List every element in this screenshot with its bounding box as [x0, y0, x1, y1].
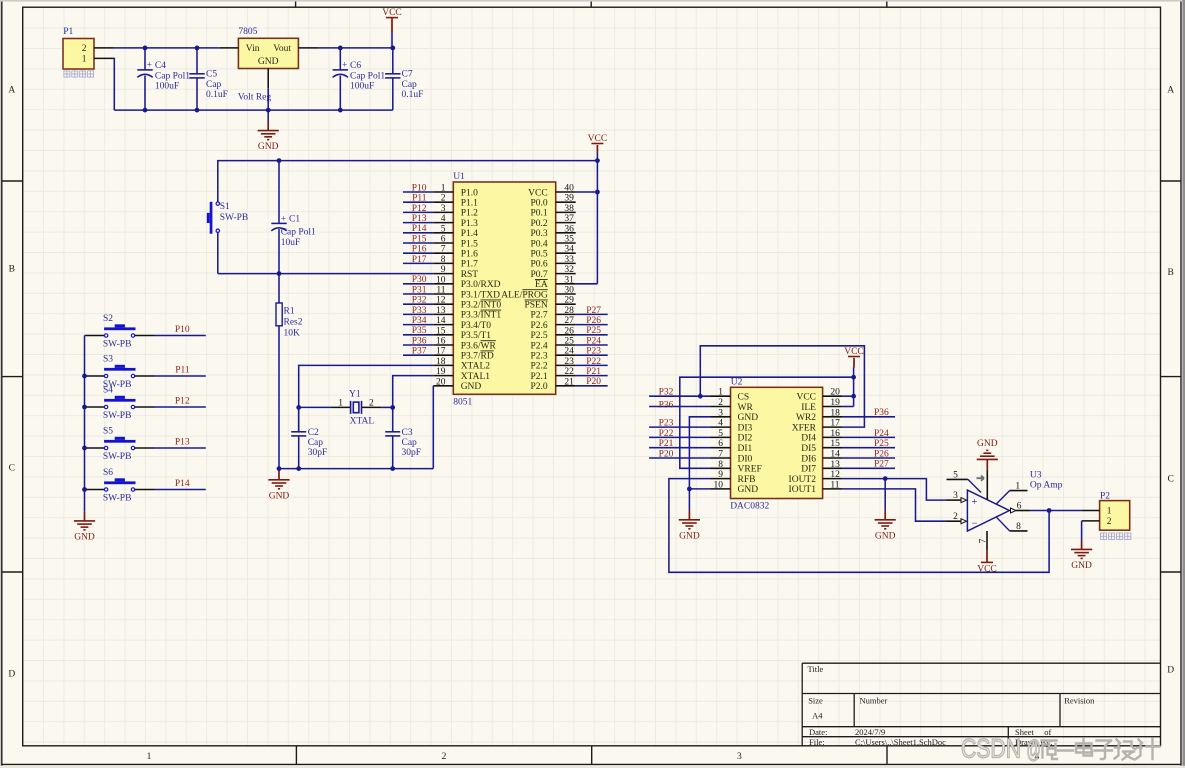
svg-text:S4: S4 [103, 386, 113, 396]
svg-text:File:: File: [809, 737, 825, 747]
wire net P13 [403, 222, 433, 224]
junction [687, 487, 692, 492]
junction [851, 394, 856, 399]
svg-text:P26: P26 [874, 449, 889, 459]
wire net P36 (WR) [649, 406, 710, 408]
svg-text:P0.6: P0.6 [531, 260, 548, 270]
pin U1.33 P0.6 [556, 262, 576, 264]
svg-text:P0.0: P0.0 [531, 199, 548, 209]
pin U1.11 P3.1/TXD [433, 293, 453, 295]
svg-text:15: 15 [436, 326, 446, 336]
svg-text:24: 24 [564, 347, 574, 357]
pin U1.12 P3.2/INT0 [433, 303, 453, 305]
svg-text:12: 12 [436, 296, 446, 306]
pin U1.25 P2.4 [556, 344, 576, 346]
svg-text:P13: P13 [412, 214, 427, 224]
svg-text:7: 7 [979, 538, 989, 543]
svg-text:P34: P34 [412, 316, 427, 326]
svg-text:DI2: DI2 [738, 434, 753, 444]
svg-text:IOUT1: IOUT1 [789, 485, 817, 495]
resistor R1 [276, 274, 282, 469]
svg-text:P20: P20 [586, 377, 601, 387]
svg-text:R1: R1 [284, 306, 295, 316]
svg-text:GND: GND [875, 531, 896, 541]
pin U3.1 [997, 491, 1010, 504]
svg-text:25: 25 [564, 337, 574, 347]
svg-text:GND: GND [258, 142, 279, 152]
svg-text:5: 5 [441, 224, 446, 234]
svg-text:13: 13 [436, 306, 446, 316]
junction [82, 487, 87, 492]
wire net P14 [403, 232, 433, 234]
ground stem switches [84, 490, 86, 512]
pin U2.2 WR [711, 406, 731, 408]
wire IOUT1 to op-amp -in [843, 489, 947, 521]
svg-text:10uF: 10uF [281, 238, 301, 248]
svg-text:P3.5/T1: P3.5/T1 [461, 331, 492, 341]
svg-text:26: 26 [564, 326, 574, 336]
svg-text:0.1uF: 0.1uF [402, 90, 424, 100]
svg-text:P12: P12 [412, 204, 427, 214]
ground (xtal rail) [268, 480, 289, 489]
svg-text:P23: P23 [586, 347, 601, 357]
svg-text:P0.1: P0.1 [531, 209, 548, 219]
wire net P13 [155, 447, 206, 449]
svg-text:21: 21 [564, 377, 574, 387]
svg-text:12: 12 [830, 470, 840, 480]
pin U1.24 P2.3 [556, 354, 576, 356]
wire net P25 [576, 334, 608, 336]
svg-text:VCC: VCC [977, 565, 997, 575]
svg-text:40: 40 [564, 184, 574, 194]
svg-text:P24: P24 [586, 336, 601, 346]
junction [595, 190, 600, 195]
wire net P32 [403, 303, 433, 305]
svg-text:1: 1 [338, 398, 343, 408]
svg-text:5: 5 [953, 470, 958, 480]
svg-text:RFB: RFB [738, 475, 756, 485]
svg-text:P1.6: P1.6 [461, 250, 478, 260]
svg-text:P36: P36 [659, 401, 674, 411]
wire ILE pin19 [843, 406, 854, 408]
svg-text:D: D [8, 670, 15, 680]
pin U2.18 WR2 [823, 416, 843, 418]
junction [266, 108, 271, 113]
pin 7805 GND [267, 69, 269, 89]
svg-text:P31: P31 [412, 285, 427, 295]
svg-text:9: 9 [441, 265, 446, 275]
svg-text:U1: U1 [453, 172, 465, 182]
wire net P26 [843, 457, 895, 459]
pin U2.5 DI2 [711, 436, 731, 438]
svg-text:IOUT2: IOUT2 [789, 475, 817, 485]
svg-text:16: 16 [436, 337, 446, 347]
svg-text:Cap: Cap [402, 438, 418, 448]
pin U1.36 P0.3 [556, 232, 576, 234]
svg-text:14: 14 [436, 316, 446, 326]
svg-text:P2.6: P2.6 [531, 321, 548, 331]
power VCC stem top-left [391, 18, 393, 32]
switch S4 SW-PB [85, 396, 155, 409]
svg-text:2: 2 [82, 44, 87, 54]
svg-text:2024/7/9: 2024/7/9 [855, 727, 885, 737]
switch S2 SW-PB [85, 324, 155, 337]
svg-text:U2: U2 [731, 377, 743, 387]
wire Y1 to XTAL1 [382, 406, 393, 408]
pin U1.32 P0.7 [556, 273, 576, 275]
svg-text:30: 30 [564, 286, 574, 296]
svg-text:CS: CS [738, 393, 750, 403]
svg-text:32: 32 [564, 265, 574, 275]
pin U2.19 ILE [823, 406, 843, 408]
svg-text:16: 16 [830, 429, 840, 439]
svg-text:P3.7/RD: P3.7/RD [461, 352, 494, 362]
junction [296, 405, 301, 410]
svg-text:P1.1: P1.1 [461, 199, 478, 209]
svg-text:Cap: Cap [206, 80, 222, 90]
no-ERC marker arrow [977, 476, 985, 481]
svg-text:10: 10 [714, 480, 724, 490]
svg-text:5: 5 [718, 429, 723, 439]
wire net P30 [403, 283, 433, 285]
pin U1.5 P1.4 [433, 232, 453, 234]
junction [143, 108, 148, 113]
wire VREF to VCC [680, 377, 854, 468]
svg-text:P2.5: P2.5 [531, 331, 548, 341]
switch S5 SW-PB [85, 437, 155, 450]
wire net P16 [403, 252, 433, 254]
svg-text:P3.0/RXD: P3.0/RXD [461, 280, 501, 290]
junction [277, 466, 282, 471]
svg-text:27: 27 [564, 316, 574, 326]
svg-text:37: 37 [564, 214, 574, 224]
pin U2.17 XFER [823, 426, 843, 428]
junction [277, 271, 282, 276]
svg-text:GND: GND [738, 413, 759, 423]
wire RFB feedback [669, 479, 1049, 573]
svg-text:P2.7: P2.7 [531, 311, 548, 321]
wire GND pin3 down [689, 417, 710, 489]
svg-text:P3.3/INT1: P3.3/INT1 [461, 311, 502, 321]
svg-text:GND: GND [74, 533, 95, 543]
pin U1.23 P2.2 [556, 364, 576, 366]
svg-text:Vout: Vout [273, 44, 291, 54]
svg-text:XTAL: XTAL [350, 416, 375, 426]
svg-text:P1.4: P1.4 [461, 229, 478, 239]
svg-text:C2: C2 [308, 428, 319, 438]
pin U1.27 P2.6 [556, 324, 576, 326]
svg-text:Date:: Date: [809, 727, 827, 737]
svg-text:CSDN: CSDN [961, 734, 1021, 764]
pin U1.15 P3.5/T1 [433, 334, 453, 336]
wire net P31 [403, 293, 433, 295]
wire GND pin10 [689, 488, 710, 490]
svg-text:P23: P23 [659, 419, 674, 429]
svg-text:P25: P25 [874, 439, 889, 449]
svg-text:Number: Number [860, 695, 888, 705]
junction [143, 46, 148, 51]
svg-text:DI7: DI7 [801, 465, 816, 475]
switch S6 SW-PB [85, 478, 155, 491]
wire xtal ground rail [279, 468, 433, 470]
svg-text:29: 29 [564, 296, 574, 306]
pin U3.5 [947, 478, 968, 480]
svg-text:C: C [1168, 475, 1174, 485]
wire net P22 [576, 364, 608, 366]
wire net P10 [155, 335, 206, 337]
pin P1.1 [94, 57, 114, 59]
svg-text:GND: GND [258, 57, 279, 67]
pin U1.16 P3.6/WR [433, 344, 453, 346]
svg-text:1: 1 [441, 184, 446, 194]
svg-text:Vin: Vin [246, 44, 260, 54]
svg-text:Cap: Cap [402, 80, 418, 90]
svg-text:−: − [972, 519, 978, 530]
pin U2.10 GND [711, 488, 731, 490]
svg-text:P0.3: P0.3 [531, 229, 548, 239]
svg-text:Op Amp: Op Amp [1030, 481, 1063, 491]
svg-text:6: 6 [441, 235, 446, 245]
svg-text:39: 39 [564, 194, 574, 204]
svg-text:GND: GND [461, 382, 482, 392]
svg-text:P32: P32 [412, 296, 427, 306]
svg-text:38: 38 [564, 204, 574, 214]
pin U1.1 P1.0 [433, 191, 453, 193]
junction [390, 405, 395, 410]
svg-text:22: 22 [564, 367, 574, 377]
junction [390, 466, 395, 471]
pin P2.1 [1082, 510, 1100, 512]
svg-text:6: 6 [718, 439, 723, 449]
svg-text:P17: P17 [412, 255, 427, 265]
svg-text:P10: P10 [175, 325, 190, 335]
svg-text:DI0: DI0 [738, 454, 753, 464]
pin U1.18 XTAL2 [433, 364, 453, 366]
wire net P37 [403, 354, 433, 356]
pin U2.1 CS [711, 395, 731, 397]
svg-text:GND: GND [977, 439, 998, 449]
svg-text:8: 8 [718, 460, 723, 470]
svg-text:19: 19 [436, 367, 446, 377]
wire VCC pin20 [843, 395, 854, 397]
svg-text:WR2: WR2 [796, 413, 816, 423]
svg-text:DAC0832: DAC0832 [730, 501, 769, 511]
svg-text:P15: P15 [412, 234, 427, 244]
comment 电源接口 [64, 71, 70, 77]
pin U1.35 P0.4 [556, 242, 576, 244]
svg-text:DI5: DI5 [801, 444, 816, 454]
ground (7805) [258, 131, 279, 140]
wire net P32 (CS) [649, 395, 710, 397]
wire net P27 [576, 313, 608, 315]
svg-text:SW-PB: SW-PB [103, 411, 132, 421]
junction [82, 374, 87, 379]
svg-text:7: 7 [441, 245, 446, 255]
svg-text:18: 18 [830, 408, 840, 418]
svg-text:U3: U3 [1030, 470, 1042, 480]
svg-text:XTAL1: XTAL1 [461, 372, 491, 382]
DAC U2 DAC0832 [731, 387, 823, 498]
wire 7805 GND to rail [267, 88, 269, 110]
wire GND (pin20) down to rail [432, 386, 434, 469]
junction [338, 46, 343, 51]
svg-text:VREF: VREF [738, 465, 762, 475]
svg-text:P22: P22 [586, 357, 601, 367]
svg-text:A: A [8, 86, 15, 96]
svg-text:P24: P24 [874, 429, 889, 439]
svg-text:P1.5: P1.5 [461, 239, 478, 249]
wire output to P2 [1030, 510, 1082, 512]
svg-text:P2.3: P2.3 [531, 352, 548, 362]
pin U2.11 IOUT1 [823, 488, 843, 490]
svg-text:10: 10 [436, 275, 446, 285]
svg-text:GND: GND [679, 531, 700, 541]
ground (switches) [74, 521, 95, 530]
svg-text:DI3: DI3 [738, 423, 753, 433]
wire net P24 [843, 436, 895, 438]
svg-text:6: 6 [1017, 502, 1022, 512]
svg-text:VCC: VCC [528, 188, 548, 198]
svg-text:28: 28 [564, 306, 574, 316]
svg-text:C5: C5 [206, 70, 217, 80]
svg-text:1: 1 [82, 54, 87, 64]
svg-text:GND: GND [269, 491, 290, 501]
wire net P34 [403, 324, 433, 326]
svg-text:33: 33 [564, 255, 574, 265]
svg-text:P27: P27 [586, 306, 601, 316]
pin U1.37 P0.2 [556, 222, 576, 224]
title block [802, 663, 1160, 746]
svg-text:1: 1 [718, 388, 723, 398]
svg-text:P3.6/WR: P3.6/WR [461, 341, 497, 351]
pin U1.26 P2.5 [556, 334, 576, 336]
pin U1.4 P1.3 [433, 222, 453, 224]
capacitor C3 [385, 407, 400, 468]
svg-text:P2.2: P2.2 [531, 362, 548, 372]
pin U3.8 [997, 517, 1010, 531]
pin U1.13 P3.3/INT1 [433, 313, 453, 315]
svg-text:18: 18 [436, 357, 446, 367]
svg-text:20: 20 [830, 388, 840, 398]
svg-text:C4: C4 [155, 61, 166, 71]
svg-text:A4: A4 [812, 710, 823, 720]
svg-text:Cap Pol1: Cap Pol1 [155, 71, 190, 81]
wire Y1 row left [299, 406, 331, 408]
junction [883, 476, 888, 481]
svg-text:13: 13 [830, 460, 840, 470]
svg-text:VCC: VCC [382, 8, 402, 18]
pin U1.22 P2.1 [556, 375, 576, 377]
wire top rail (VIN net) [114, 47, 220, 49]
svg-text:C1: C1 [289, 214, 300, 224]
pin U3.3 [947, 499, 961, 501]
svg-text:C3: C3 [402, 428, 413, 438]
svg-text:P1.0: P1.0 [461, 188, 478, 198]
svg-text:P33: P33 [412, 306, 427, 316]
op-amp U3 triangle [967, 490, 1009, 531]
junction [82, 446, 87, 451]
svg-text:+: + [972, 497, 978, 508]
svg-text:2: 2 [953, 512, 958, 522]
svg-text:P21: P21 [586, 367, 601, 377]
svg-text:30pF: 30pF [402, 448, 422, 458]
svg-text:3: 3 [953, 491, 958, 501]
pin U2.20 VCC [823, 395, 843, 397]
microcontroller U1 8051 [453, 182, 555, 394]
ground stem (IOUT2) [884, 479, 886, 511]
wire net P23 [649, 426, 710, 428]
pin U3.2 [947, 520, 961, 522]
wire net P12 [155, 406, 206, 408]
svg-text:P2.0: P2.0 [531, 382, 548, 392]
svg-text:XTAL2: XTAL2 [461, 362, 491, 372]
svg-text:Cap Pol1: Cap Pol1 [281, 228, 316, 238]
wire net P20 [576, 385, 608, 387]
wire IOUT2 to op-amp +in [843, 479, 947, 501]
crystal Y1 [351, 401, 362, 414]
svg-text:Volt Reg: Volt Reg [238, 92, 272, 102]
svg-text:GND: GND [1071, 561, 1092, 571]
junction [595, 158, 600, 163]
svg-text:RST: RST [461, 270, 479, 280]
svg-text:4: 4 [441, 214, 446, 224]
svg-text:36: 36 [564, 224, 574, 234]
svg-text:P30: P30 [412, 275, 427, 285]
svg-text:ILE: ILE [801, 403, 816, 413]
ground (P2) [1071, 549, 1092, 558]
pin 7805 Vin [220, 47, 239, 49]
wire P2 pin2 to ground [1081, 521, 1083, 541]
svg-text:P22: P22 [659, 429, 674, 439]
wire VCC to pin40 and EA [596, 161, 598, 284]
svg-text:100uF: 100uF [350, 81, 374, 91]
wire net P14 [155, 489, 206, 491]
svg-text:VCC: VCC [796, 393, 816, 403]
connector P2 [1100, 501, 1130, 531]
wire net P20 [649, 457, 710, 459]
svg-text:S2: S2 [103, 314, 113, 324]
wire net P22 [649, 436, 710, 438]
svg-text:D: D [1167, 666, 1174, 676]
pin U2.14 DI6 [823, 457, 843, 459]
svg-text:8: 8 [1016, 522, 1021, 532]
junction [296, 466, 301, 471]
svg-text:P26: P26 [586, 316, 601, 326]
svg-text:P3.4/T0: P3.4/T0 [461, 321, 492, 331]
pin U1.3 P1.2 [433, 211, 453, 213]
svg-text:2: 2 [442, 752, 447, 762]
junction [195, 108, 200, 113]
power VCC (supply) [386, 17, 398, 19]
svg-text:1: 1 [1015, 482, 1020, 492]
capacitor C5 [189, 48, 204, 110]
pin U1.40 VCC [556, 191, 576, 193]
svg-text:ALE/PROG: ALE/PROG [501, 290, 548, 300]
junction [390, 46, 395, 51]
pin U1.6 P1.5 [433, 242, 453, 244]
pin U1.28 P2.7 [556, 313, 576, 315]
svg-text:+: + [281, 214, 286, 224]
svg-text:GND: GND [738, 485, 759, 495]
svg-text:11: 11 [436, 286, 445, 296]
wire switch ground rail [84, 336, 86, 490]
svg-text:P1.2: P1.2 [461, 209, 478, 219]
svg-text:Y1: Y1 [349, 389, 361, 399]
svg-text:PSEN: PSEN [524, 301, 547, 311]
svg-text:VCC: VCC [844, 347, 864, 357]
ground (op-amp) [977, 450, 998, 459]
svg-text:19: 19 [830, 398, 840, 408]
